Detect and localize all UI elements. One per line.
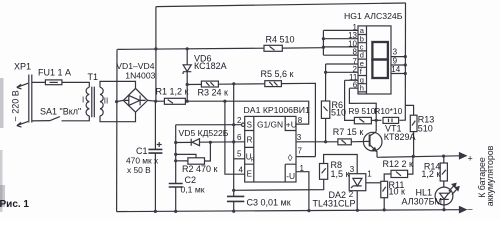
svg-text:R: R [251, 158, 255, 164]
svg-text:HG1 АЛС324Б: HG1 АЛС324Б [344, 11, 403, 21]
svg-text:VD5 КД522Б: VD5 КД522Б [179, 128, 229, 138]
svg-text:–: – [468, 204, 473, 214]
svg-text:14: 14 [391, 65, 400, 74]
svg-text:КТ829А: КТ829А [384, 132, 416, 142]
svg-text:+: + [468, 154, 473, 164]
svg-text:R2 470 к: R2 470 к [182, 164, 218, 174]
svg-text:+U: +U [286, 119, 297, 129]
svg-text:1,2 к: 1,2 к [421, 169, 440, 179]
svg-text:R9 510: R9 510 [348, 106, 375, 116]
svg-text:3: 3 [350, 165, 355, 174]
svg-text:1: 1 [300, 164, 305, 173]
svg-text:1N4003: 1N4003 [125, 71, 155, 81]
svg-text:R1 1,2 к: R1 1,2 к [156, 87, 189, 97]
svg-text:~ 220 В: ~ 220 В [10, 90, 20, 121]
svg-text:КС182А: КС182А [194, 61, 227, 71]
svg-text:5: 5 [237, 150, 242, 159]
svg-text:8: 8 [353, 48, 358, 57]
svg-text:VD1–VD4: VD1–VD4 [116, 61, 154, 71]
svg-text:2: 2 [237, 116, 242, 125]
svg-text:E: E [247, 170, 252, 179]
svg-text:7: 7 [298, 147, 303, 156]
svg-text:C1: C1 [136, 146, 148, 156]
svg-text:С3 0,01 мк: С3 0,01 мк [247, 197, 291, 207]
svg-text:Рис. 1: Рис. 1 [0, 199, 29, 210]
svg-text:◊: ◊ [288, 153, 293, 164]
svg-text:2: 2 [349, 190, 354, 199]
svg-text:510: 510 [331, 107, 346, 117]
svg-text:0,1 мк: 0,1 мк [181, 184, 205, 194]
svg-text:R: R [247, 136, 253, 145]
svg-text:Т1: Т1 [88, 72, 99, 82]
svg-text:470 мк х: 470 мк х [126, 155, 159, 165]
svg-text:R10*10: R10*10 [374, 106, 402, 116]
svg-text:h: h [360, 84, 364, 93]
svg-text:-U: -U [286, 171, 295, 181]
svg-text:S: S [247, 121, 252, 130]
svg-text:3: 3 [297, 133, 302, 142]
svg-text:6: 6 [353, 80, 358, 89]
svg-text:R5 5,6 к: R5 5,6 к [261, 69, 294, 79]
svg-text:SA1 "Вкл": SA1 "Вкл" [40, 106, 81, 116]
svg-text:II: II [104, 96, 108, 105]
svg-text:R12 2 к: R12 2 к [383, 159, 414, 169]
svg-text:G1/GN: G1/GN [257, 119, 283, 129]
svg-text:аккумуляторов: аккумуляторов [485, 145, 495, 206]
svg-text:R3 24 к: R3 24 к [198, 87, 229, 97]
svg-text:I: I [82, 96, 84, 105]
svg-text:х 50 В: х 50 В [127, 165, 151, 175]
svg-text:TL431CLP: TL431CLP [313, 198, 356, 208]
svg-text:8: 8 [298, 116, 303, 125]
svg-text:АЛ307БМ: АЛ307БМ [402, 197, 443, 207]
svg-text:510: 510 [418, 123, 433, 133]
svg-text:ХР1: ХР1 [14, 62, 31, 72]
svg-text:9: 9 [393, 56, 398, 65]
svg-text:DA1 КР1006ВИ1: DA1 КР1006ВИ1 [244, 105, 311, 115]
svg-text:4: 4 [239, 165, 244, 174]
svg-text:10 к: 10 к [389, 186, 406, 196]
svg-text:FU1 1 А: FU1 1 А [38, 68, 71, 78]
svg-text:1: 1 [367, 170, 372, 179]
svg-text:R7 15 к: R7 15 к [333, 127, 364, 137]
svg-text:6: 6 [237, 133, 242, 142]
svg-text:R4 510: R4 510 [266, 34, 295, 44]
svg-text:1,5 к: 1,5 к [331, 169, 350, 179]
